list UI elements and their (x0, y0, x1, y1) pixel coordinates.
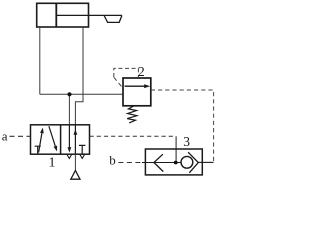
node dot (174, 161, 178, 165)
valve 2 dashed pilot diagonal (114, 77, 123, 88)
valve 2 body (123, 78, 151, 106)
wire main horizontal (40, 93, 123, 95)
cylinder body (37, 3, 89, 27)
svg-text:b: b (109, 152, 116, 167)
exhaust chevron right (80, 154, 85, 158)
dashed line valve2 outlet to check valve (151, 90, 214, 162)
pilot dashed line valve1 to check valve (90, 135, 177, 137)
check seat V (188, 152, 198, 173)
wire junction drop to valve 1 (68, 94, 70, 125)
valve 2 flow arrow (125, 85, 145, 87)
exhaust chevron left (67, 154, 72, 158)
wire left cylinder port (39, 27, 41, 94)
svg-text:3: 3 (183, 134, 190, 149)
supply line below valve 1 (74, 154, 76, 170)
load trapezoid on rod (104, 16, 122, 23)
piston (55, 3, 57, 27)
valve 1 left position arrow down (49, 126, 55, 146)
valve 1 right position up arrow (74, 125, 76, 154)
air supply triangle (71, 171, 80, 180)
pilot dashed line b (118, 162, 142, 164)
valve 2 spring (127, 106, 137, 123)
svg-text:2: 2 (138, 65, 145, 80)
svg-text:1: 1 (49, 156, 56, 171)
junction node (67, 92, 71, 96)
check ball (181, 156, 193, 168)
valve 1 right position down arrow (68, 125, 70, 147)
piston rod (57, 14, 122, 16)
valve 1 left position arrow up (39, 133, 42, 153)
pilot dashed line a (10, 135, 31, 137)
valve 1 divider (60, 125, 62, 154)
pilot line vertical into check valve (175, 136, 177, 162)
valve 1 right blocked port (79, 145, 85, 154)
check valve 3 body (145, 149, 202, 175)
svg-text:a: a (2, 129, 8, 144)
outlet line to right edge (198, 161, 213, 163)
pilot chevron (154, 154, 163, 171)
valve 1 body (31, 125, 90, 154)
check valve interior line (142, 162, 181, 164)
wire right cylinder port (75, 27, 83, 125)
valve 2 dashed enclosure (114, 68, 139, 77)
valve 1 left blocked port (35, 146, 41, 154)
